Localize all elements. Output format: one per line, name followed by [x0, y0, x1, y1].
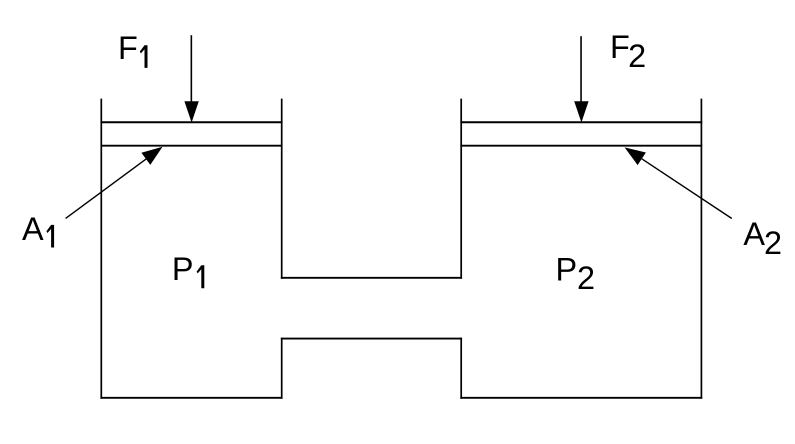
left cylinder right wall lower segment [281, 338, 283, 399]
left cylinder right wall upper segment [281, 99, 283, 279]
force arrow F2 (down onto piston 2) [574, 36, 588, 122]
svg-text:2: 2 [577, 260, 595, 296]
svg-text:2: 2 [628, 38, 646, 74]
svg-text:F: F [118, 30, 138, 66]
svg-text:A: A [743, 216, 765, 252]
svg-text:P: P [172, 251, 194, 287]
svg-text:F: F [610, 29, 630, 65]
leader arrow A2 (pointing to underside of piston 2) [625, 147, 732, 218]
svg-text:2: 2 [764, 225, 782, 261]
svg-text:A: A [22, 211, 44, 247]
piston 1 bottom line [100, 145, 282, 147]
leader arrow A1 (pointing to underside of piston 1) [66, 147, 163, 219]
piston 1 top line [100, 121, 282, 123]
right cylinder left wall upper segment [460, 99, 462, 279]
right cylinder right wall [700, 99, 702, 399]
connecting channel top wall [281, 277, 462, 279]
connecting channel bottom wall [281, 338, 462, 340]
right cylinder bottom [460, 397, 702, 399]
label F1 subscript 1 [140, 45, 148, 68]
label P1 subscript 1 [197, 265, 205, 288]
piston 2 bottom line [460, 145, 702, 147]
svg-text:P: P [556, 252, 578, 288]
label A1 subscript 1 [46, 225, 54, 248]
piston 2 top line [460, 121, 702, 123]
left cylinder bottom [100, 397, 282, 399]
force arrow F1 (down onto piston 1) [184, 35, 198, 122]
left cylinder left wall [100, 99, 102, 399]
right cylinder left wall lower segment [460, 338, 462, 399]
